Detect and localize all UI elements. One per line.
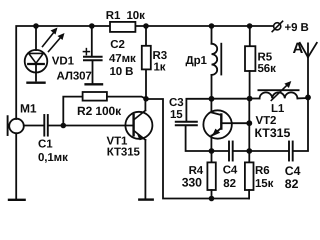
svg-text:КТ315: КТ315: [255, 126, 291, 140]
resistor R5: [245, 26, 255, 99]
power terminal +9B: [274, 23, 281, 30]
svg-text:L1: L1: [271, 103, 285, 115]
node top rail / R5: [247, 23, 253, 29]
node top rail / C2: [89, 23, 95, 29]
resistor R4: [207, 151, 215, 199]
node R5 / L1: [247, 96, 253, 102]
node VT2 base / Dr1 / C3: [209, 96, 215, 102]
antenna A: [300, 43, 317, 98]
wire top rail left segment: [16, 26, 110, 119]
svg-text:КТ315: КТ315: [107, 147, 141, 159]
svg-text:R5: R5: [258, 52, 273, 64]
svg-text:47мк: 47мк: [109, 53, 136, 65]
resistor R6: [245, 151, 254, 199]
node R6 top: [246, 148, 252, 154]
svg-text:C3: C3: [169, 97, 184, 109]
node top rail / Dr1: [209, 23, 215, 29]
svg-text:R1 10к: R1 10к: [106, 10, 145, 22]
transistor VT2: [203, 99, 232, 151]
capacitor C1: [44, 115, 48, 136]
svg-text:VD1: VD1: [52, 56, 75, 68]
wire emitter row to C4a: [212, 150, 228, 152]
node top rail / LED: [33, 23, 39, 29]
resistor R1: [110, 22, 135, 32]
node VT2 emitter / R4 / C3: [209, 148, 215, 154]
svg-text:82: 82: [285, 177, 299, 191]
ground bar (M1): [9, 199, 25, 201]
svg-text:C2: C2: [110, 39, 125, 51]
wire VT2 collector: [232, 122, 249, 124]
capacitor C4 (right): [289, 142, 293, 161]
wire C1 to VT1 base: [49, 125, 134, 127]
svg-text:82: 82: [223, 178, 236, 190]
wire top rail right segment: [135, 25, 273, 27]
svg-text:VT1: VT1: [107, 135, 128, 147]
svg-text:330: 330: [182, 176, 202, 190]
svg-text:C4: C4: [285, 164, 301, 178]
node top rail / R3: [143, 23, 149, 29]
svg-text:C1: C1: [38, 138, 53, 150]
svg-text:R2 100к: R2 100к: [77, 104, 122, 118]
ground bar (C2): [86, 83, 102, 85]
wire collector VT1 to bottom rail: [146, 99, 249, 199]
svg-text:M1: M1: [20, 102, 37, 116]
choke Dr1: [212, 26, 222, 99]
node L1 / antenna: [305, 95, 311, 101]
svg-text:А: А: [293, 40, 304, 57]
svg-text:Др1: Др1: [186, 55, 208, 67]
svg-text:R3: R3: [153, 50, 168, 62]
svg-text:56к: 56к: [258, 63, 277, 75]
capacitor C4 (left): [229, 142, 233, 161]
ground bar (LED cathode): [28, 81, 45, 83]
LED VD1: [25, 26, 65, 81]
microphone M1: [8, 116, 24, 199]
svg-text:C4: C4: [223, 165, 238, 177]
wire base node to R5 node: [212, 98, 250, 100]
inductor L1: [250, 81, 308, 100]
svg-text:15к: 15к: [255, 178, 274, 190]
svg-text:+9 В: +9 В: [285, 22, 309, 34]
node VT1 collector: [143, 96, 149, 102]
capacitor C2 (electrolytic): [83, 26, 101, 83]
node VT2 collector: [246, 120, 252, 126]
ground bar (VT1 emitter): [139, 198, 152, 200]
svg-text:0,1мк: 0,1мк: [38, 152, 68, 164]
svg-text:1к: 1к: [154, 62, 166, 74]
svg-text:VT2: VT2: [256, 115, 277, 127]
wire C4b to antenna node: [294, 97, 309, 151]
node bottom rail / R4: [209, 196, 215, 202]
node base VT1 / R2: [61, 123, 67, 129]
capacitor C3: [176, 99, 212, 151]
svg-text:АЛ307: АЛ307: [57, 71, 92, 83]
resistor R3: [142, 26, 151, 99]
resistor R2: [63, 92, 146, 126]
svg-text:15: 15: [170, 109, 183, 121]
transistor VT1: [125, 99, 152, 200]
wire R5 node down to emitter row: [248, 99, 250, 151]
wire M1 to C1: [24, 125, 44, 127]
wire C4a to R6 node: [234, 150, 289, 152]
svg-text:R6: R6: [255, 165, 270, 177]
svg-text:10 В: 10 В: [110, 66, 134, 78]
